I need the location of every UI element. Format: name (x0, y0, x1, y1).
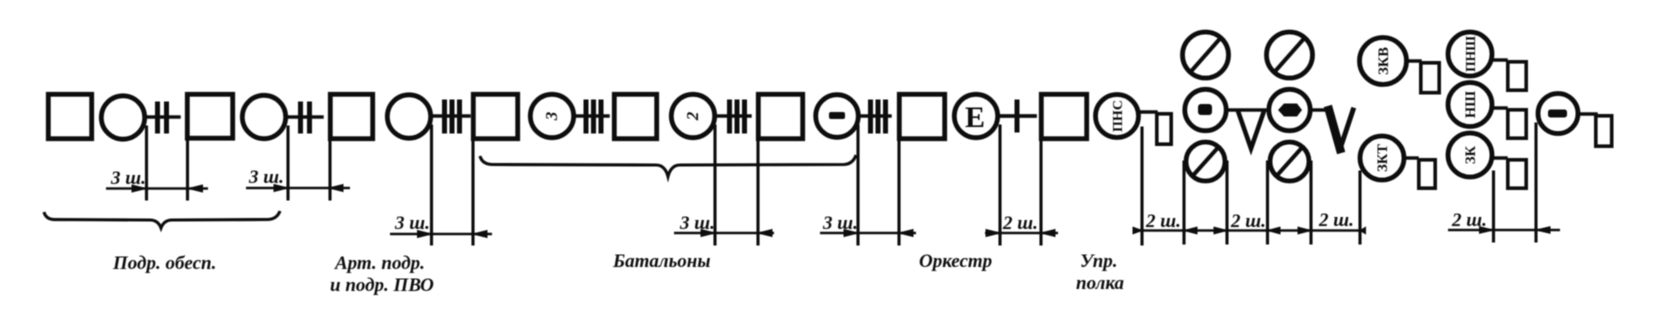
wire pole under ZKT (1358, 172, 1361, 243)
circle C7 orchestra (954, 94, 997, 137)
flag V1 (1239, 113, 1264, 149)
wire C7 plus tick (999, 102, 1035, 130)
svg-text:3 ш.: 3 ш. (679, 213, 715, 234)
dim D1 3sh (106, 185, 208, 192)
dim D6 2sh (985, 230, 1058, 237)
square S1 (48, 94, 91, 138)
svg-text:полка: полка (1076, 273, 1125, 294)
wire col2 to V2 (1312, 108, 1330, 111)
circle C4 battalion 3 (530, 94, 573, 137)
svg-text:Оркестр: Оркестр (919, 251, 992, 272)
svg-text:ПНС: ПНС (1111, 100, 1126, 132)
wire staff mid to R5 (1493, 106, 1506, 109)
circle col2 top slashed (1267, 32, 1313, 78)
wire pole under staff column (1492, 172, 1495, 241)
svg-text:3 ш.: 3 ш. (110, 168, 146, 189)
svg-text:3 ш.: 3 ш. (248, 167, 284, 188)
rect R3 (1596, 116, 1612, 146)
wire pole under C5 (713, 126, 716, 244)
rect R5 (1508, 110, 1526, 138)
wire pole under S6 (756, 141, 759, 244)
wire pole under C2 (286, 127, 289, 199)
wire pole under S2 (186, 140, 189, 199)
wire pole under C7 (998, 126, 1001, 244)
DIMENSIONS (106, 185, 1560, 238)
wire pole under S3 (328, 141, 331, 199)
svg-text:2 ш.: 2 ш. (1230, 211, 1266, 232)
brace podr obesp (44, 211, 280, 228)
svg-text:2 ш.: 2 ш. (1318, 210, 1354, 231)
wire col1 to col2 (1228, 108, 1266, 111)
wire commander to R3 (1578, 112, 1596, 115)
wire C3 ticks (432, 102, 469, 131)
circle ZKT (1360, 136, 1404, 180)
wire C4 ticks (575, 102, 608, 131)
dim D7-D9 2sh line (1133, 227, 1366, 234)
svg-text:2: 2 (683, 111, 702, 121)
wire pole under C1 (145, 127, 148, 199)
circle C5 battalion 2 (671, 94, 714, 137)
wire staff bottom to R6 (1493, 156, 1506, 159)
svg-text:3 ш.: 3 ш. (822, 213, 858, 234)
square S4 (473, 94, 517, 138)
svg-text:Е: Е (965, 101, 985, 134)
svg-text:ЗК: ЗК (1463, 145, 1479, 164)
dim D10 2sh (1448, 227, 1560, 234)
svg-text:Батальоны: Батальоны (612, 251, 711, 272)
rect R6 (1508, 160, 1526, 188)
rect R2 (1419, 160, 1435, 188)
value blob col1 middle (1198, 104, 1212, 115)
svg-text:Арт. подр.: Арт. подр. (334, 253, 425, 274)
wire verticals under col2 (1268, 162, 1312, 243)
wire C1 ticks (146, 104, 179, 131)
circle C3 (387, 95, 430, 138)
circle col2 middle (1269, 89, 1310, 130)
svg-text:НШ: НШ (1463, 91, 1479, 118)
value 1 in C6 (829, 112, 845, 119)
wire ZKT to R2 (1405, 156, 1417, 159)
wire pole under commander (1534, 124, 1537, 241)
wire pole under C8 (1140, 128, 1143, 244)
square S2 (187, 94, 232, 138)
dim D5 3sh (820, 230, 916, 237)
svg-text:2 ш.: 2 ш. (1451, 210, 1487, 231)
svg-text:2 ш.: 2 ш. (1002, 213, 1038, 234)
circle staff ZK (1448, 133, 1492, 177)
value dash commander (1548, 110, 1567, 118)
svg-text:ПНШ: ПНШ (1463, 36, 1478, 72)
wire staff top to R4 (1493, 58, 1506, 61)
wire pole under S4 (471, 141, 474, 244)
circle C6 battalion 1 (816, 95, 859, 138)
wire pole under C3 (430, 126, 433, 244)
svg-text:Подр. обесп.: Подр. обесп. (112, 253, 216, 274)
circle col1 middle (1185, 89, 1226, 130)
square S5 (614, 94, 656, 138)
circle C8 PNS (1096, 95, 1139, 138)
wire verticals under col1 (1184, 162, 1227, 243)
circle staff NSh (1448, 83, 1492, 127)
rect R4 (1508, 62, 1526, 90)
dim D2 3sh (246, 185, 350, 192)
square S7 (899, 94, 944, 138)
rect R0 (1157, 114, 1171, 144)
circle ZKV (1360, 38, 1407, 85)
circle C1 (101, 96, 144, 139)
svg-text:2 ш.: 2 ш. (1145, 211, 1181, 232)
wire pole under C6 (856, 126, 859, 244)
svg-text:3: 3 (542, 111, 561, 121)
dim D3 3sh (390, 231, 492, 238)
circle commander (1538, 94, 1578, 134)
wire ZKV to R1 (1406, 59, 1420, 62)
brace battalions (480, 155, 856, 177)
circle C2 (242, 95, 285, 138)
square S3 (330, 94, 372, 138)
circle col1 top slashed (1183, 32, 1229, 78)
square S6 (758, 94, 802, 138)
wire pole under S8 (1039, 141, 1042, 244)
wire pole under S7 (897, 141, 900, 244)
wire C2 ticks (287, 104, 322, 131)
flag V2 bold (1329, 110, 1353, 149)
value blob col2 middle (1278, 104, 1302, 117)
wire C8 to rect R0 (1140, 110, 1156, 113)
circle col1 bottom slashed (1186, 142, 1225, 181)
wire C5 ticks (716, 102, 750, 131)
svg-text:и подр. ПВО: и подр. ПВО (330, 275, 434, 296)
svg-text:ЗКТ: ЗКТ (1375, 144, 1391, 172)
dim D4 3sh (674, 230, 774, 237)
square S8 (1041, 94, 1086, 138)
circle staff top (1448, 32, 1492, 76)
svg-text:Упр.: Упр. (1080, 251, 1118, 272)
rect R1 (1421, 63, 1439, 93)
svg-text:ЗКВ: ЗКВ (1376, 47, 1392, 75)
circle col2 bottom slashed (1270, 142, 1309, 181)
wire C6 ticks (859, 102, 890, 131)
svg-text:3 ш.: 3 ш. (394, 213, 430, 234)
